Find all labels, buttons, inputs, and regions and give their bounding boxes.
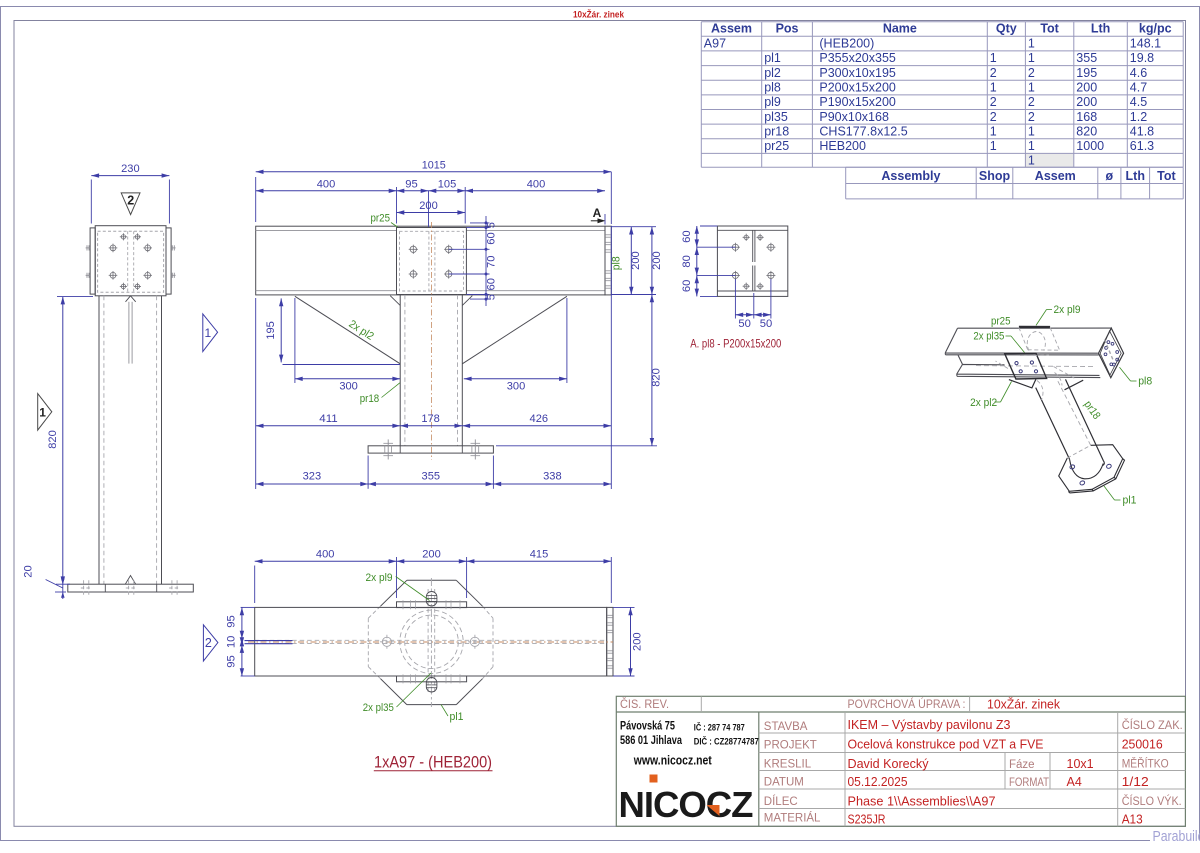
section A dims 50/50 [734, 279, 736, 319]
svg-text:4.7: 4.7 [1130, 81, 1147, 95]
svg-text:ø: ø [1106, 169, 1114, 183]
left view: anchor bolts hidden [83, 580, 85, 596]
svg-text:200: 200 [651, 251, 663, 270]
svg-text:pl1: pl1 [764, 51, 781, 65]
svg-text:1: 1 [39, 406, 46, 420]
svg-text:2: 2 [127, 194, 134, 208]
svg-text:200: 200 [630, 251, 642, 270]
svg-text:PROJEKT: PROJEKT [764, 740, 817, 752]
bottom: vertical centerline [430, 578, 432, 707]
left view: weld mark top [126, 296, 136, 302]
svg-text:IČ : 287 74 787: IČ : 287 74 787 [694, 722, 745, 734]
svg-text:FORMAT: FORMAT [1009, 777, 1049, 789]
svg-text:300: 300 [339, 380, 358, 392]
svg-text:2: 2 [990, 66, 997, 80]
left view: hidden web lines [127, 231, 129, 292]
svg-text:1015: 1015 [422, 160, 446, 172]
svg-text:Shop: Shop [979, 169, 1011, 183]
svg-text:P300x10x195: P300x10x195 [819, 66, 896, 80]
bottom dims 95/10/95 [241, 606, 255, 608]
main: pipe centerline [430, 222, 432, 460]
main: plate bolts [409, 245, 418, 254]
svg-text:60: 60 [485, 278, 497, 291]
svg-text:KRESLIL: KRESLIL [764, 758, 812, 770]
3d hidden pipe back edge [1057, 379, 1091, 446]
svg-text:05.12.2025: 05.12.2025 [848, 775, 908, 789]
svg-text:Assembly: Assembly [881, 169, 940, 183]
svg-text:Ocelová konstrukce pod VZT: Ocelová konstrukce pod VZT a FVE [848, 738, 1044, 752]
left view: pl9 side plates [90, 228, 95, 294]
svg-text:STAVBA: STAVBA [764, 721, 808, 733]
NICOCZ logo [619, 775, 753, 826]
svg-text:David Korecký: David Korecký [848, 757, 930, 771]
3d hidden web dashes on plate [1105, 340, 1114, 362]
svg-text:ČÍSLO ZAK.: ČÍSLO ZAK. [1122, 719, 1183, 732]
svg-text:1: 1 [1028, 154, 1035, 168]
svg-text:pl8: pl8 [611, 256, 623, 270]
main: beam pr25 HEB200 [256, 226, 605, 295]
svg-text:pl1: pl1 [450, 711, 464, 723]
svg-text:168: 168 [1076, 110, 1097, 124]
svg-text:pr18: pr18 [764, 124, 789, 138]
svg-text:Qty: Qty [996, 22, 1017, 36]
svg-text:2: 2 [1028, 110, 1035, 124]
svg-text:1: 1 [990, 139, 997, 153]
3d top plate pl9 top edge [1019, 326, 1050, 329]
svg-text:1: 1 [990, 81, 997, 95]
svg-text:www.nicocz.net: www.nicocz.net [633, 754, 713, 768]
svg-text:2: 2 [990, 110, 997, 124]
svg-text:50: 50 [760, 318, 773, 330]
view marker 1 (right) [38, 394, 52, 431]
svg-text:S235JR: S235JR [848, 813, 886, 827]
3d base plate pl1 octagon [1059, 445, 1125, 493]
svg-text:1.2: 1.2 [1130, 110, 1147, 124]
bottom: pipe hidden circles [400, 610, 463, 673]
svg-text:Parabuild: Parabuild [1153, 829, 1200, 845]
svg-text:148.1: 148.1 [1130, 37, 1161, 51]
bottom dims 400/200/415 [254, 566, 256, 604]
svg-text:pr25: pr25 [371, 213, 391, 225]
svg-text:820: 820 [1076, 124, 1097, 138]
main: weld chamfers [390, 296, 400, 306]
svg-text:Tot: Tot [1157, 169, 1176, 183]
bottom: hidden bolt lines [427, 589, 429, 695]
3d pl9 hidden outline through flange [1019, 328, 1060, 351]
left view: hidden plate outline [98, 231, 164, 292]
svg-text:1: 1 [990, 51, 997, 65]
svg-text:95: 95 [226, 615, 238, 628]
left view: beam end block HEB200 [95, 226, 166, 296]
svg-text:pl9: pl9 [764, 95, 781, 109]
dimension row 323/355/338 [367, 456, 369, 489]
view marker 2 bottom [203, 625, 218, 661]
svg-text:Pos: Pos [776, 22, 799, 36]
svg-text:338: 338 [543, 471, 562, 483]
bottom: pl1 bolt holes [382, 637, 391, 646]
title block grid [616, 696, 1185, 826]
svg-text:230: 230 [121, 163, 140, 175]
svg-text:1: 1 [1028, 81, 1035, 95]
svg-text:DÍLEC: DÍLEC [764, 795, 798, 808]
svg-text:pr25: pr25 [991, 316, 1011, 328]
svg-text:2x pl9: 2x pl9 [1054, 304, 1081, 316]
svg-text:DIČ : CZ28774787: DIČ : CZ28774787 [694, 736, 759, 748]
3d pl8 bolts [1107, 341, 1110, 344]
dimension row 400/95/105/400 [396, 187, 398, 224]
svg-text:MATERIÁL: MATERIÁL [764, 812, 821, 825]
svg-text:60: 60 [681, 230, 693, 243]
bottom: pl9 plate bottom [397, 676, 467, 682]
svg-text:1: 1 [990, 124, 997, 138]
3d pl1 holes [1069, 464, 1075, 469]
svg-text:5: 5 [485, 222, 497, 228]
svg-text:2: 2 [205, 636, 212, 650]
svg-text:1: 1 [1028, 37, 1035, 51]
bottom: centerline [248, 641, 613, 643]
left view: small holes [120, 233, 127, 240]
svg-text:A: A [593, 206, 602, 220]
svg-text:2: 2 [990, 95, 997, 109]
bottom: beam pr25 plan [255, 607, 607, 676]
svg-text:pl8: pl8 [764, 81, 781, 95]
3d hidden pipe curves under beam [996, 355, 1077, 400]
dimension 5/60/70/60/5 [470, 222, 490, 224]
3d pl9 bolts [1015, 362, 1018, 365]
section A dims 60/80/60 [700, 225, 717, 227]
svg-text:2x pl35: 2x pl35 [973, 331, 1004, 343]
main: front plate pl9 [397, 228, 467, 295]
svg-text:10: 10 [226, 636, 238, 649]
dimension 20 [55, 591, 66, 593]
svg-text:2x pl9: 2x pl9 [366, 572, 393, 584]
outer sheet border [0, 6, 1200, 8]
svg-text:1000: 1000 [1076, 139, 1104, 153]
3d gusset pl2 front [1009, 379, 1083, 390]
3d hidden dash along web [976, 366, 1096, 367]
main: base plate pl1 edge [368, 446, 493, 453]
svg-text:10xŽár. zinek: 10xŽár. zinek [987, 697, 1061, 712]
svg-text:70: 70 [485, 255, 497, 268]
svg-text:820: 820 [651, 368, 663, 387]
svg-text:Tot: Tot [1040, 22, 1059, 36]
svg-text:20: 20 [23, 565, 35, 578]
svg-text:105: 105 [438, 179, 457, 191]
svg-text:pl8: pl8 [1138, 376, 1152, 388]
main: pl8 edge hole marks [606, 234, 611, 236]
svg-text:300: 300 [507, 380, 526, 392]
svg-text:355: 355 [422, 471, 441, 483]
bottom: bottom anchor bolt [426, 678, 437, 693]
main: base anchor bolts [387, 439, 389, 459]
BOM assembly header [846, 167, 1183, 199]
BOM grey cell [1025, 153, 1073, 167]
svg-text:Assem: Assem [1035, 169, 1076, 183]
left view: pipe pr18 [98, 296, 100, 584]
main: gusset pl2 right [462, 296, 567, 364]
svg-text:IKEM – Výstavby pavilonu Z: IKEM – Výstavby pavilonu Z3 [848, 718, 1011, 732]
svg-text:P190x15x200: P190x15x200 [819, 95, 896, 109]
3d end plate pl8 diamond [1099, 328, 1124, 378]
left view: anchor rod [128, 302, 130, 364]
section A: web slot [752, 230, 754, 262]
svg-text:2: 2 [1028, 66, 1035, 80]
svg-text:Name: Name [883, 22, 917, 36]
dimension 300 right [566, 298, 568, 383]
svg-text:A. pl8 - P200x15x200: A. pl8 - P200x15x200 [690, 337, 781, 351]
svg-text:61.3: 61.3 [1130, 139, 1154, 153]
svg-text:pl35: pl35 [764, 110, 788, 124]
svg-text:4.6: 4.6 [1130, 66, 1147, 80]
svg-text:95: 95 [226, 655, 238, 668]
3d beam pr25 top flange [945, 328, 1111, 355]
svg-text:CHS177.8x12.5: CHS177.8x12.5 [819, 124, 907, 138]
left view: weld mark base [125, 576, 135, 585]
svg-text:60: 60 [485, 232, 497, 245]
view marker 2 (down) [121, 193, 140, 215]
svg-text:Phase 1\\Assemblies\\A97: Phase 1\\Assemblies\\A97 [848, 795, 996, 809]
svg-text:323: 323 [303, 471, 322, 483]
svg-text:1/12: 1/12 [1122, 775, 1149, 789]
svg-text:DATUM: DATUM [764, 776, 804, 788]
main: gusset pl2 left [295, 296, 400, 364]
svg-text:200: 200 [419, 200, 438, 212]
dimension 300 left [294, 298, 296, 383]
svg-text:Lth: Lth [1091, 22, 1110, 36]
dimension 820 left [57, 296, 93, 298]
dimension 1015 [255, 177, 257, 222]
svg-text:Pávovská 75: Pávovská 75 [620, 721, 675, 733]
svg-text:P200x15x200: P200x15x200 [819, 81, 896, 95]
svg-text:586 01 Jihlava: 586 01 Jihlava [620, 735, 682, 747]
svg-text:A97: A97 [704, 37, 726, 51]
svg-text:(HEB200): (HEB200) [819, 37, 874, 51]
svg-text:250016: 250016 [1122, 738, 1163, 752]
parabuild watermark [0, 840, 1150, 842]
view marker 1 main [203, 314, 218, 352]
svg-text:2x pl35: 2x pl35 [363, 702, 394, 714]
bottom: top anchor bolt [426, 592, 437, 607]
dimension 230 [90, 180, 92, 224]
bottom: octagon pl1 [381, 580, 483, 704]
svg-text:95: 95 [405, 179, 418, 191]
section A view pl8 [717, 226, 787, 296]
3d pl1 hidden edge [1067, 445, 1090, 458]
svg-text:pl1: pl1 [1123, 495, 1137, 507]
left view: base plate pl1 [68, 584, 194, 592]
svg-text:2x pl2: 2x pl2 [970, 397, 997, 409]
dimension 195 [283, 364, 401, 366]
svg-text:80: 80 [681, 255, 693, 268]
3d beam web edge [958, 355, 962, 364]
dimension 200 plate [397, 212, 466, 214]
dimension row 411/178/426 [255, 298, 257, 489]
svg-text:50: 50 [738, 318, 751, 330]
svg-text:200: 200 [1076, 81, 1097, 95]
svg-text:355: 355 [1076, 51, 1097, 65]
svg-text:POVRCHOVÁ ÚPRAVA :: POVRCHOVÁ ÚPRAVA : [848, 698, 966, 711]
svg-text:60: 60 [681, 280, 693, 293]
main: end plate pl8 edge [605, 226, 611, 295]
svg-text:411: 411 [319, 413, 338, 425]
svg-text:200: 200 [632, 632, 644, 651]
dimension 200 pl8 height + 820 [651, 227, 653, 295]
svg-text:Fáze: Fáze [1009, 759, 1035, 771]
svg-text:2: 2 [1028, 95, 1035, 109]
svg-text:P90x10x168: P90x10x168 [819, 110, 889, 124]
bottom: hidden web lines [255, 639, 607, 641]
section A: large holes [731, 243, 740, 252]
svg-text:10x1: 10x1 [1067, 757, 1094, 771]
3d pipe bottom curve [1070, 459, 1104, 478]
left view: bolt stubs [86, 247, 91, 249]
svg-text:400: 400 [317, 179, 336, 191]
svg-text:10xŽár. zinek: 10xŽár. zinek [573, 8, 625, 20]
bottom: pl9 plate top [397, 602, 467, 608]
svg-text:pr18: pr18 [360, 393, 380, 405]
svg-text:Assem: Assem [711, 22, 752, 36]
svg-text:178: 178 [421, 413, 440, 425]
svg-text:A13: A13 [1122, 813, 1143, 827]
left view: bolts M large [109, 244, 118, 253]
svg-text:1: 1 [204, 326, 211, 340]
svg-text:41.8: 41.8 [1130, 124, 1154, 138]
svg-text:1: 1 [1028, 124, 1035, 138]
svg-text:kg/pc: kg/pc [1139, 22, 1172, 36]
svg-text:pl2: pl2 [764, 66, 781, 80]
svg-text:P355x20x355: P355x20x355 [819, 51, 896, 65]
bottom: end plate pl8 [607, 607, 613, 676]
dimension 200 beam height [611, 226, 656, 228]
section A: small holes [743, 234, 750, 241]
svg-text:1: 1 [1028, 139, 1035, 153]
main: pipe pr18 [399, 295, 401, 446]
svg-text:400: 400 [316, 549, 335, 561]
svg-text:426: 426 [530, 413, 549, 425]
svg-text:195: 195 [265, 321, 277, 340]
BOM grid [701, 22, 1183, 168]
svg-text:ČÍSLO VÝK.: ČÍSLO VÝK. [1122, 795, 1182, 808]
svg-text:200: 200 [1076, 95, 1097, 109]
svg-text:1: 1 [1028, 51, 1035, 65]
svg-text:NICOCZ: NICOCZ [619, 784, 753, 825]
svg-text:820: 820 [47, 430, 59, 449]
svg-text:5: 5 [485, 294, 497, 300]
bottom: section cut line 2 [245, 640, 293, 642]
svg-text:Lth: Lth [1126, 169, 1145, 183]
svg-text:ČIS. REV.: ČIS. REV. [620, 698, 669, 711]
bottom dim 200 right [613, 606, 635, 608]
svg-text:A4: A4 [1067, 775, 1082, 789]
svg-text:1xA97 - (HEB200): 1xA97 - (HEB200) [374, 753, 492, 772]
svg-text:415: 415 [530, 549, 549, 561]
dimension 820 right [496, 445, 657, 447]
svg-text:MĚŘÍTKO: MĚŘÍTKO [1122, 757, 1169, 770]
svg-text:200: 200 [422, 549, 441, 561]
3d beam bottom flange [957, 364, 1101, 377]
svg-text:195: 195 [1076, 66, 1097, 80]
svg-text:4.5: 4.5 [1130, 95, 1147, 109]
3d front plate pl9 [1005, 353, 1047, 379]
svg-text:19.8: 19.8 [1130, 51, 1154, 65]
svg-text:400: 400 [527, 179, 546, 191]
svg-text:HEB200: HEB200 [819, 139, 866, 153]
svg-text:pr25: pr25 [764, 139, 789, 153]
3d pipe pr18 [1036, 379, 1105, 465]
